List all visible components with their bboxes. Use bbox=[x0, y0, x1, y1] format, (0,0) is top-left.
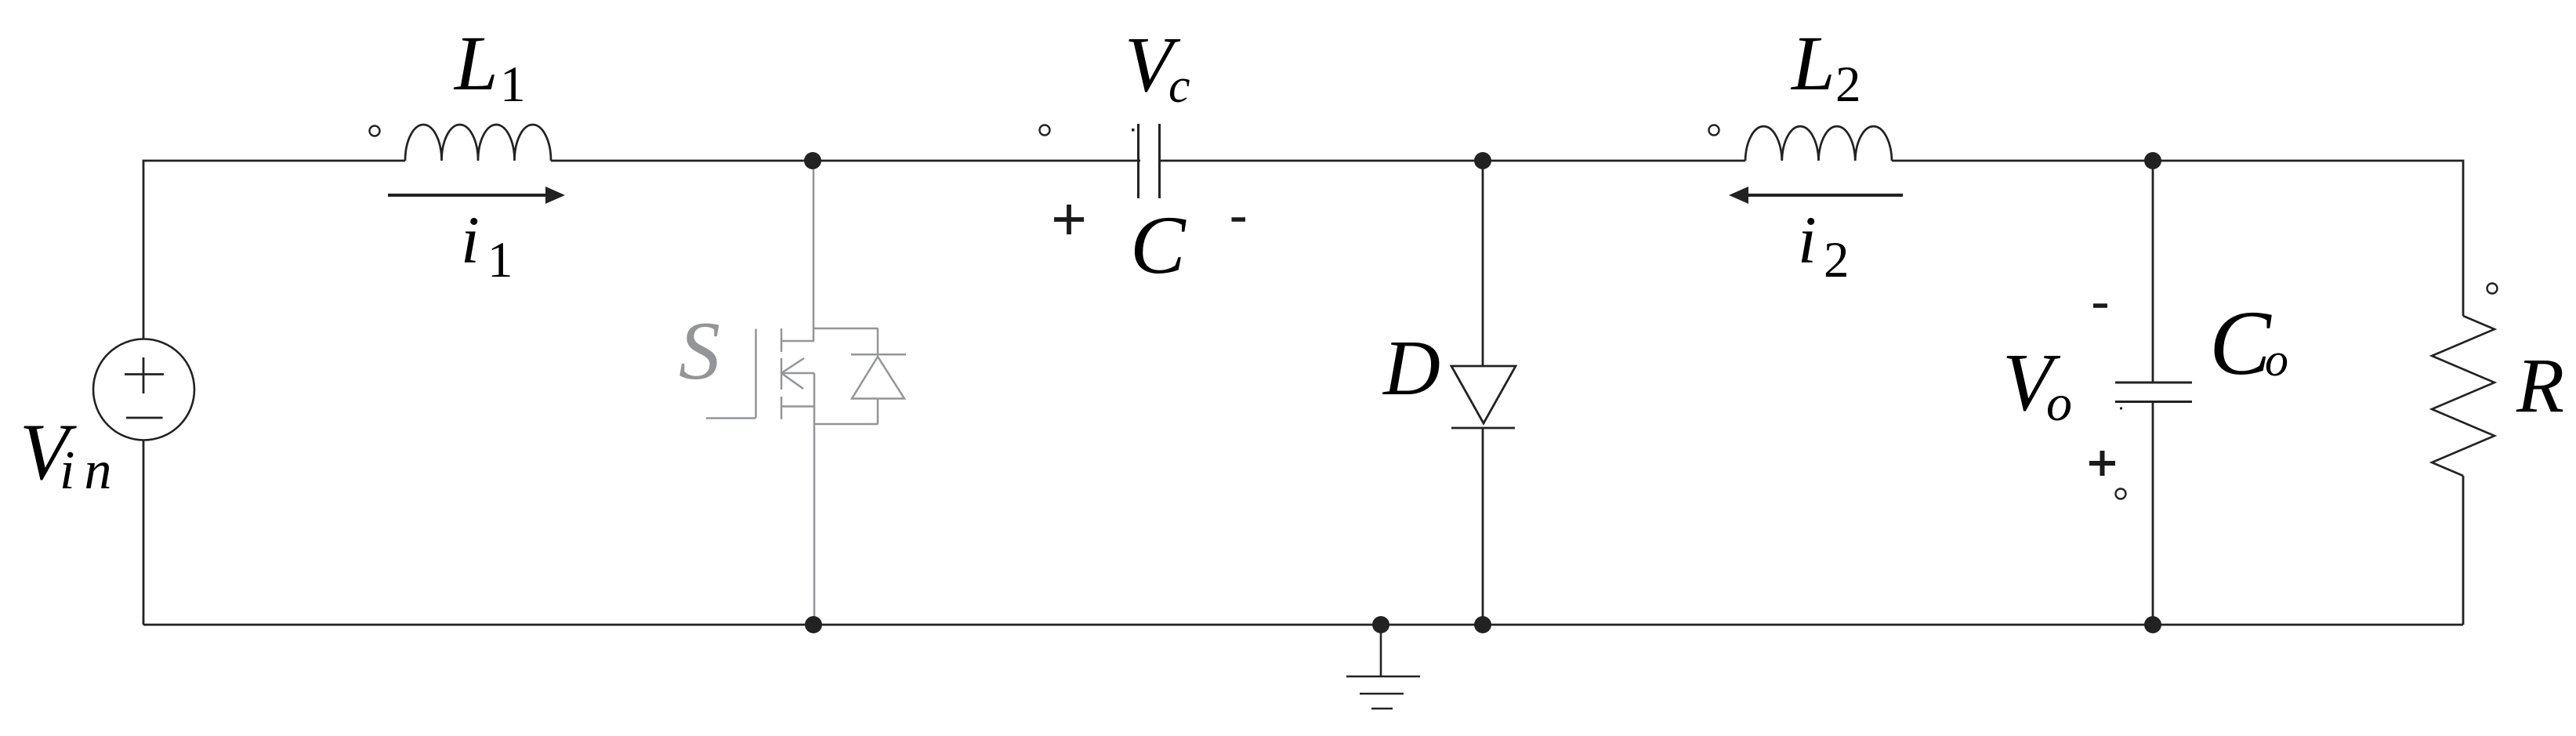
body diode bbox=[851, 328, 906, 425]
minus sign of source bbox=[126, 417, 163, 419]
bulk arrow bbox=[781, 358, 814, 389]
svg-text:L: L bbox=[1790, 20, 1835, 107]
terminal circle Co bbox=[2116, 489, 2126, 499]
wire top left bbox=[143, 161, 405, 339]
svg-text:C: C bbox=[2209, 292, 2272, 394]
terminal circle R bbox=[2487, 284, 2498, 294]
node dot bottom Co bbox=[2144, 616, 2161, 633]
minus sign of C bbox=[1232, 217, 1246, 222]
wire bottom bbox=[143, 624, 2463, 626]
svg-text:L: L bbox=[453, 20, 498, 107]
inductor L2 bbox=[1745, 126, 1892, 161]
terminal circle C bbox=[1040, 125, 1050, 136]
label Vin bbox=[20, 408, 121, 501]
wire drain vertical bbox=[813, 161, 815, 341]
terminal circle L2 bbox=[1709, 125, 1719, 136]
voltage source Vin bbox=[93, 339, 194, 441]
wire source vertical bbox=[813, 373, 816, 625]
svg-text:in: in bbox=[60, 441, 121, 501]
wire top mid-right bbox=[1159, 160, 1745, 162]
wire top mid-left bbox=[551, 160, 1140, 162]
plus sign of C bbox=[1054, 205, 1084, 234]
channel dash 2 bbox=[781, 358, 783, 390]
node dot bottom ground bbox=[1372, 616, 1389, 633]
node dot top Co bbox=[2144, 152, 2161, 169]
svg-text:S: S bbox=[679, 305, 720, 397]
terminal circle L1 bbox=[370, 126, 380, 136]
wire diode branch bottom bbox=[1482, 428, 1484, 625]
label L2 bbox=[1790, 20, 1861, 113]
node dot bottom diode bbox=[1474, 616, 1491, 633]
gate bar bbox=[755, 329, 757, 419]
wire left bottom bbox=[143, 441, 145, 625]
wire right bottom bbox=[2462, 476, 2465, 625]
tiny mark near Co plate bbox=[2120, 408, 2122, 410]
resistor R bbox=[2432, 316, 2494, 476]
svg-text:o: o bbox=[2265, 334, 2288, 386]
svg-text:1: 1 bbox=[487, 232, 513, 288]
inductor L1 bbox=[405, 125, 551, 161]
wire diode branch top bbox=[1482, 161, 1484, 366]
svg-text:1: 1 bbox=[500, 56, 526, 113]
svg-text:c: c bbox=[1168, 60, 1190, 113]
diode D bbox=[1451, 366, 1516, 428]
plus sign of Vo bbox=[2089, 451, 2115, 476]
gate lead bbox=[706, 417, 756, 419]
svg-text:D: D bbox=[1382, 324, 1440, 412]
MOSFET S with body diode (gray) bbox=[706, 161, 906, 625]
channel dash 3 bbox=[781, 397, 783, 419]
capacitor Co bbox=[2115, 383, 2192, 402]
label Co bbox=[2209, 292, 2288, 394]
svg-text:R: R bbox=[2516, 342, 2564, 429]
wire Co branch top bbox=[2152, 161, 2154, 382]
wire bottom diode link bbox=[814, 423, 878, 426]
channel dash 1 bbox=[781, 328, 783, 352]
tiny mark near C plate bbox=[1132, 129, 1135, 132]
label L1 bbox=[453, 20, 526, 113]
source lead bbox=[781, 405, 814, 408]
label Vo bbox=[2002, 336, 2072, 432]
svg-text:i: i bbox=[461, 202, 480, 277]
wire top diode link bbox=[813, 328, 878, 330]
node dot top diode bbox=[1474, 152, 1491, 169]
ground bbox=[1346, 625, 1420, 709]
minus sign of Vo bbox=[2093, 303, 2107, 308]
node dot bottom MOSFET bbox=[805, 616, 822, 633]
svg-text:2: 2 bbox=[1824, 232, 1850, 288]
svg-text:2: 2 bbox=[1835, 56, 1861, 113]
label i2 bbox=[1798, 202, 1850, 288]
wire top right bbox=[1892, 161, 2463, 316]
node dot top MOSFET bbox=[804, 152, 821, 169]
wire Co branch bottom bbox=[2152, 402, 2154, 625]
svg-text:C: C bbox=[1130, 199, 1187, 291]
capacitor C bbox=[1139, 124, 1160, 198]
plus sign of source bbox=[125, 357, 164, 393]
current arrow i2 bbox=[1729, 187, 1903, 204]
svg-text:o: o bbox=[2046, 375, 2072, 432]
label Vc bbox=[1125, 20, 1190, 113]
label i1 bbox=[461, 202, 513, 288]
drain lead bbox=[781, 340, 814, 343]
svg-text:i: i bbox=[1798, 202, 1817, 277]
current arrow i1 bbox=[388, 187, 565, 204]
